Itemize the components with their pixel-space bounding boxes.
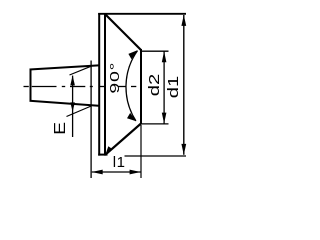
- shank inner taper edge (bottom): [67, 106, 92, 117]
- shank inner taper edge (top): [70, 66, 92, 75]
- shank outline (tapered square drive, side view): [30, 65, 99, 105]
- cone right edge: [140, 49, 142, 124]
- svg-text:d2: d2: [146, 74, 163, 96]
- l1 left extension line: [90, 61, 92, 179]
- head bottom edge: [98, 154, 107, 156]
- dimension E line with arrows: [70, 75, 75, 137]
- svg-text:E: E: [50, 122, 68, 135]
- cone bottom slope end flare: [105, 146, 111, 155]
- svg-text:d1: d1: [164, 76, 181, 99]
- head left face: [98, 13, 100, 156]
- cone top slope (45 deg): [105, 14, 141, 50]
- angle arc 90deg with arrows: [126, 51, 138, 121]
- arc arrowhead bottom: [127, 113, 136, 121]
- svg-text:l1: l1: [113, 154, 126, 171]
- l1 dimension line with arrows: [92, 170, 141, 175]
- arc arrowhead top: [128, 50, 137, 59]
- cone bottom slope (45 deg): [106, 124, 142, 155]
- d1 bottom extension (gap behind l1 text): [125, 155, 187, 157]
- head cone base edge: [104, 13, 106, 156]
- d1 dimension line with arrows: [181, 15, 186, 155]
- d2 top extension: [142, 50, 169, 52]
- d2 dimension line with arrows: [162, 51, 167, 123]
- d2 bottom extension: [142, 123, 169, 125]
- l1 right extension line: [140, 125, 142, 179]
- svg-text:90°: 90°: [107, 62, 122, 94]
- head top edge + d1 top extension: [98, 13, 186, 15]
- centerline (dash-dot axis): [24, 86, 137, 88]
